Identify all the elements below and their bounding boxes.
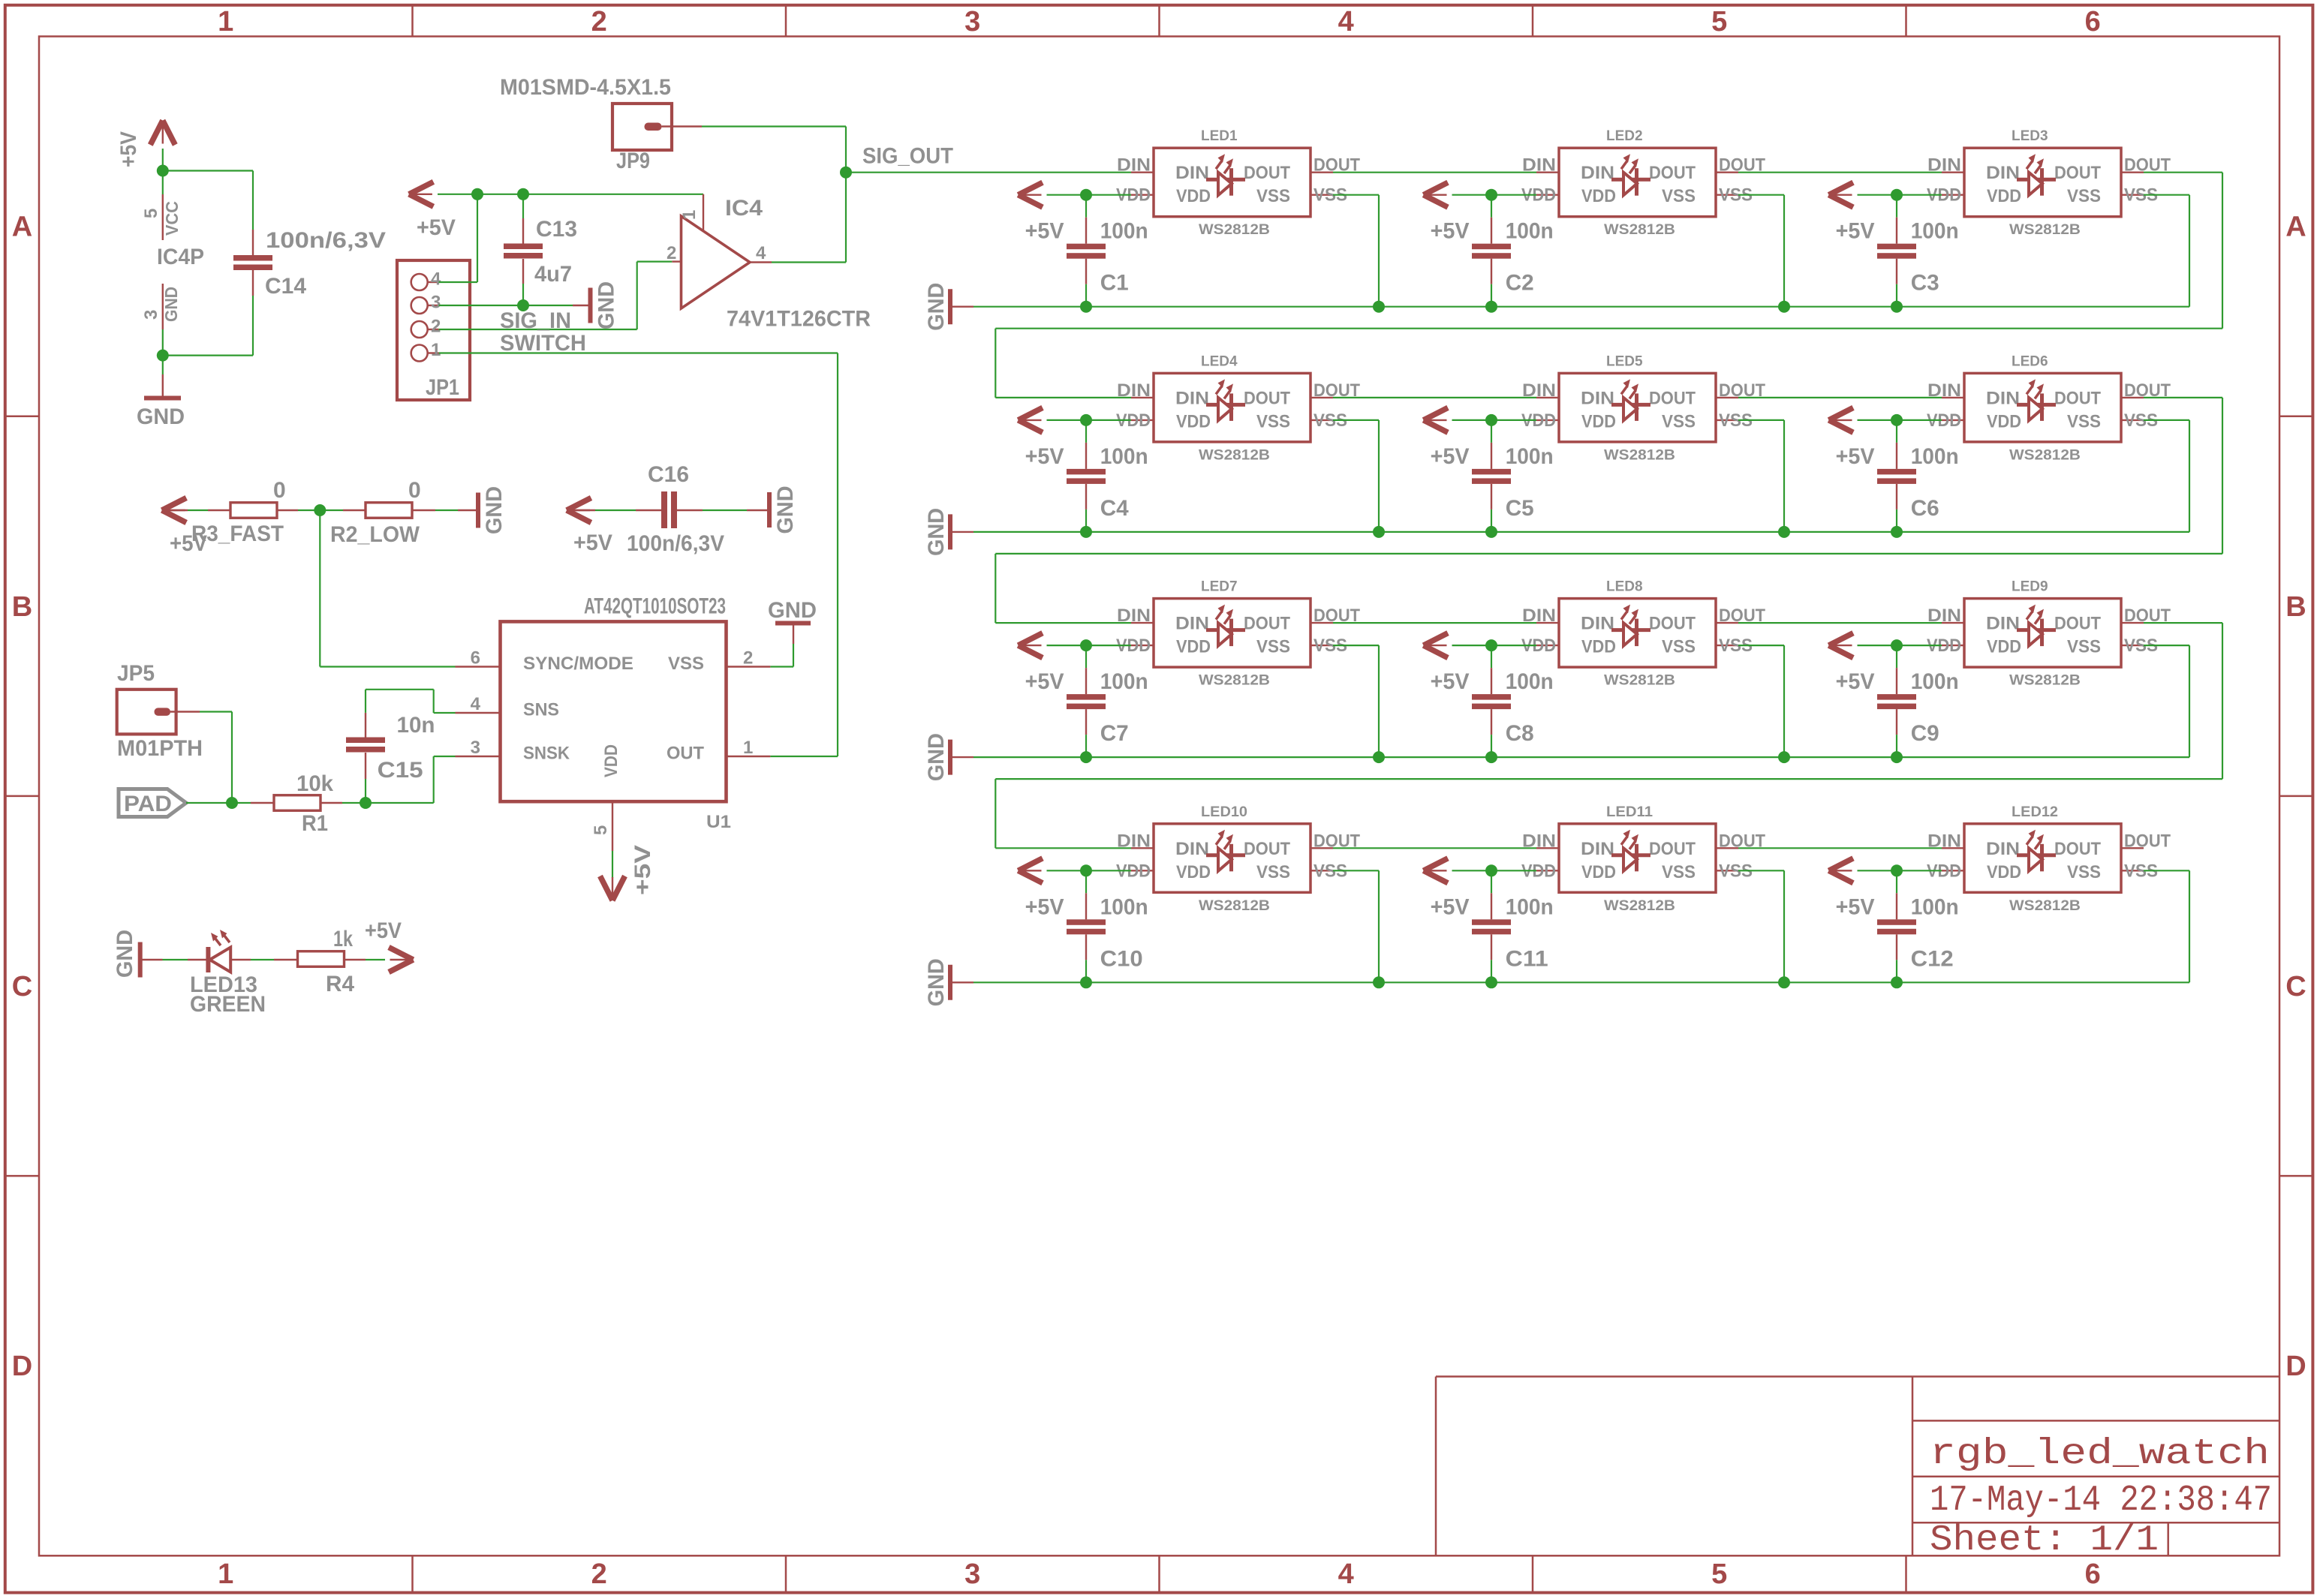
svg-text:3: 3 bbox=[471, 738, 480, 758]
svg-text:VSS: VSS bbox=[2067, 862, 2101, 882]
svg-text:SNSK: SNSK bbox=[523, 744, 570, 764]
svg-text:GND: GND bbox=[924, 733, 949, 781]
svg-text:WS2812B: WS2812B bbox=[1199, 447, 1270, 463]
svg-text:C4: C4 bbox=[1100, 496, 1129, 521]
svg-text:DIN: DIN bbox=[1522, 606, 1556, 626]
svg-text:DIN: DIN bbox=[1117, 155, 1151, 176]
svg-text:74V1T126CTR: 74V1T126CTR bbox=[727, 307, 871, 332]
svg-text:VDD: VDD bbox=[601, 744, 621, 777]
svg-text:DIN: DIN bbox=[1986, 839, 2020, 859]
svg-text:A: A bbox=[12, 212, 32, 243]
svg-text:DIN: DIN bbox=[1175, 839, 1209, 859]
svg-text:DIN: DIN bbox=[1581, 388, 1614, 408]
svg-text:+5V: +5V bbox=[417, 215, 456, 240]
svg-text:4: 4 bbox=[1338, 1558, 1354, 1590]
svg-text:1: 1 bbox=[679, 210, 700, 220]
svg-text:DIN: DIN bbox=[1522, 155, 1556, 176]
svg-text:+5V: +5V bbox=[170, 531, 207, 556]
svg-text:IC4P: IC4P bbox=[157, 245, 204, 269]
svg-text:JP1: JP1 bbox=[426, 375, 459, 400]
svg-text:4: 4 bbox=[756, 243, 766, 263]
svg-text:WS2812B: WS2812B bbox=[2009, 222, 2081, 238]
svg-text:4: 4 bbox=[431, 269, 441, 290]
svg-text:LED9: LED9 bbox=[2012, 579, 2048, 595]
svg-text:GND: GND bbox=[924, 958, 949, 1006]
svg-text:C8: C8 bbox=[1506, 721, 1534, 746]
svg-text:3: 3 bbox=[431, 293, 441, 313]
svg-text:VSS: VSS bbox=[668, 654, 704, 674]
svg-text:LED3: LED3 bbox=[2012, 128, 2048, 144]
svg-text:VDD: VDD bbox=[1581, 862, 1616, 882]
svg-text:C: C bbox=[12, 971, 32, 1002]
svg-text:2: 2 bbox=[667, 243, 676, 263]
svg-text:C13: C13 bbox=[536, 217, 577, 242]
svg-text:+5V: +5V bbox=[1836, 894, 1875, 919]
svg-text:VDD: VDD bbox=[1987, 186, 2021, 206]
svg-text:AT42QT1010SOT23: AT42QT1010SOT23 bbox=[584, 594, 726, 619]
svg-text:A: A bbox=[2285, 212, 2306, 243]
svg-text:2: 2 bbox=[591, 1558, 607, 1590]
svg-text:1: 1 bbox=[218, 1558, 233, 1590]
svg-text:DOUT: DOUT bbox=[2054, 163, 2101, 183]
svg-text:1: 1 bbox=[431, 340, 441, 360]
svg-text:DIN: DIN bbox=[1986, 388, 2020, 408]
svg-text:GND: GND bbox=[924, 283, 949, 331]
svg-text:DIN: DIN bbox=[1175, 163, 1209, 183]
svg-text:+5V: +5V bbox=[1836, 669, 1875, 694]
svg-text:DOUT: DOUT bbox=[2054, 614, 2101, 634]
svg-text:WS2812B: WS2812B bbox=[1604, 673, 1675, 689]
svg-text:R4: R4 bbox=[326, 972, 354, 996]
svg-text:100n: 100n bbox=[1100, 444, 1148, 469]
svg-text:DOUT: DOUT bbox=[1649, 163, 1696, 183]
svg-text:DOUT: DOUT bbox=[1649, 388, 1696, 408]
svg-text:1: 1 bbox=[743, 738, 753, 758]
svg-text:100n: 100n bbox=[1911, 669, 1959, 694]
svg-text:R1: R1 bbox=[302, 811, 328, 836]
svg-text:WS2812B: WS2812B bbox=[1199, 222, 1270, 238]
svg-text:100n: 100n bbox=[1911, 444, 1959, 469]
svg-text:DIN: DIN bbox=[1927, 831, 1961, 851]
svg-text:JP9: JP9 bbox=[616, 149, 650, 173]
svg-text:+5V: +5V bbox=[1836, 219, 1875, 244]
svg-text:+5V: +5V bbox=[1025, 894, 1064, 919]
svg-text:C11: C11 bbox=[1506, 946, 1548, 971]
svg-text:WS2812B: WS2812B bbox=[1604, 222, 1675, 238]
svg-text:VSS: VSS bbox=[1256, 411, 1290, 431]
svg-text:5: 5 bbox=[1711, 6, 1727, 38]
svg-text:B: B bbox=[2285, 591, 2306, 623]
svg-text:DIN: DIN bbox=[1986, 163, 2020, 183]
svg-text:4: 4 bbox=[471, 694, 481, 714]
svg-text:VSS: VSS bbox=[2067, 637, 2101, 657]
svg-text:GND: GND bbox=[594, 281, 619, 329]
svg-text:DOUT: DOUT bbox=[1244, 839, 1290, 859]
svg-text:WS2812B: WS2812B bbox=[1604, 898, 1675, 914]
svg-text:VDD: VDD bbox=[1176, 862, 1211, 882]
svg-text:C14: C14 bbox=[265, 274, 306, 299]
svg-text:VSS: VSS bbox=[1662, 411, 1696, 431]
svg-text:VSS: VSS bbox=[1662, 637, 1696, 657]
svg-text:C10: C10 bbox=[1100, 946, 1143, 971]
svg-text:SYNC/MODE: SYNC/MODE bbox=[523, 654, 633, 674]
svg-text:4u7: 4u7 bbox=[534, 262, 572, 287]
svg-text:GREEN: GREEN bbox=[190, 992, 266, 1017]
svg-text:LED2: LED2 bbox=[1606, 128, 1643, 144]
svg-text:VDD: VDD bbox=[1987, 637, 2021, 657]
svg-text:100n: 100n bbox=[1506, 669, 1554, 694]
svg-text:Sheet: 1/1: Sheet: 1/1 bbox=[1930, 1520, 2159, 1561]
svg-text:DIN: DIN bbox=[1986, 614, 2020, 634]
svg-text:R2_LOW: R2_LOW bbox=[330, 522, 420, 547]
svg-text:5: 5 bbox=[1711, 1558, 1727, 1590]
svg-text:VDD: VDD bbox=[1176, 411, 1211, 431]
svg-text:DOUT: DOUT bbox=[2054, 388, 2101, 408]
svg-text:C9: C9 bbox=[1911, 721, 1939, 746]
svg-text:OUT: OUT bbox=[667, 744, 704, 764]
svg-text:100n: 100n bbox=[1100, 669, 1148, 694]
svg-text:C5: C5 bbox=[1506, 496, 1534, 521]
svg-text:0: 0 bbox=[408, 478, 421, 503]
svg-text:D: D bbox=[2285, 1351, 2306, 1382]
svg-text:+5V: +5V bbox=[1025, 444, 1064, 469]
svg-text:DIN: DIN bbox=[1927, 155, 1961, 176]
svg-text:DIN: DIN bbox=[1927, 380, 1961, 401]
svg-text:100n: 100n bbox=[1506, 444, 1554, 469]
svg-text:DIN: DIN bbox=[1522, 831, 1556, 851]
svg-text:DIN: DIN bbox=[1927, 606, 1961, 626]
svg-text:rgb_led_watch: rgb_led_watch bbox=[1930, 1434, 2270, 1474]
svg-text:VSS: VSS bbox=[1662, 186, 1696, 206]
svg-text:C3: C3 bbox=[1911, 271, 1939, 296]
svg-text:+5V: +5V bbox=[1431, 669, 1470, 694]
svg-text:VDD: VDD bbox=[1176, 186, 1211, 206]
svg-text:SWITCH: SWITCH bbox=[500, 331, 586, 356]
svg-text:DIN: DIN bbox=[1522, 380, 1556, 401]
svg-text:C: C bbox=[2285, 971, 2306, 1002]
svg-text:3: 3 bbox=[964, 1558, 980, 1590]
svg-text:GND: GND bbox=[924, 508, 949, 556]
svg-text:PAD: PAD bbox=[124, 792, 172, 816]
svg-text:100n: 100n bbox=[1911, 219, 1959, 244]
svg-text:100n: 100n bbox=[1911, 894, 1959, 919]
svg-text:VDD: VDD bbox=[1176, 637, 1211, 657]
svg-text:C6: C6 bbox=[1911, 496, 1939, 521]
svg-text:VSS: VSS bbox=[1256, 637, 1290, 657]
svg-text:DOUT: DOUT bbox=[1649, 614, 1696, 634]
svg-text:VDD: VDD bbox=[1581, 637, 1616, 657]
svg-text:WS2812B: WS2812B bbox=[1199, 673, 1270, 689]
svg-text:1: 1 bbox=[218, 6, 233, 38]
svg-text:C7: C7 bbox=[1100, 721, 1129, 746]
svg-text:100n: 100n bbox=[1100, 219, 1148, 244]
svg-text:VDD: VDD bbox=[1581, 411, 1616, 431]
svg-text:100n/6,3V: 100n/6,3V bbox=[627, 531, 724, 556]
svg-text:VSS: VSS bbox=[1662, 862, 1696, 882]
svg-text:DOUT: DOUT bbox=[1244, 614, 1290, 634]
svg-text:C2: C2 bbox=[1506, 271, 1534, 296]
svg-text:LED12: LED12 bbox=[2012, 804, 2058, 820]
svg-text:C1: C1 bbox=[1100, 271, 1129, 296]
svg-text:LED10: LED10 bbox=[1201, 804, 1247, 820]
svg-text:VDD: VDD bbox=[1581, 186, 1616, 206]
svg-text:C15: C15 bbox=[378, 758, 423, 783]
svg-text:DOUT: DOUT bbox=[2124, 831, 2171, 851]
svg-text:WS2812B: WS2812B bbox=[2009, 447, 2081, 463]
svg-text:GND: GND bbox=[482, 486, 507, 534]
svg-text:B: B bbox=[12, 591, 32, 623]
svg-text:D: D bbox=[12, 1351, 32, 1382]
svg-text:100n: 100n bbox=[1506, 219, 1554, 244]
svg-text:GND: GND bbox=[773, 486, 798, 534]
svg-text:+5V: +5V bbox=[116, 131, 141, 167]
svg-text:VCC: VCC bbox=[162, 201, 182, 236]
svg-text:GND: GND bbox=[137, 404, 185, 429]
svg-text:M01PTH: M01PTH bbox=[117, 736, 203, 761]
svg-text:DIN: DIN bbox=[1581, 614, 1614, 634]
svg-text:LED1: LED1 bbox=[1201, 128, 1238, 144]
svg-text:2: 2 bbox=[743, 648, 753, 669]
svg-text:+5V: +5V bbox=[1431, 219, 1470, 244]
svg-text:+5V: +5V bbox=[1836, 444, 1875, 469]
svg-text:VSS: VSS bbox=[2067, 411, 2101, 431]
svg-text:+5V: +5V bbox=[365, 918, 402, 943]
svg-text:+5V: +5V bbox=[1025, 219, 1064, 244]
svg-text:1k: 1k bbox=[333, 927, 353, 951]
svg-text:+5V: +5V bbox=[630, 845, 655, 895]
svg-text:WS2812B: WS2812B bbox=[1604, 447, 1675, 463]
svg-text:+5V: +5V bbox=[1025, 669, 1064, 694]
svg-text:WS2812B: WS2812B bbox=[2009, 673, 2081, 689]
svg-text:VSS: VSS bbox=[1256, 862, 1290, 882]
svg-text:VSS: VSS bbox=[2067, 186, 2101, 206]
svg-text:DIN: DIN bbox=[1175, 614, 1209, 634]
svg-text:2: 2 bbox=[591, 6, 607, 38]
svg-text:+5V: +5V bbox=[573, 530, 612, 555]
svg-text:GND: GND bbox=[768, 598, 817, 623]
svg-text:DOUT: DOUT bbox=[1649, 839, 1696, 859]
svg-text:LED4: LED4 bbox=[1201, 353, 1238, 369]
svg-text:JP5: JP5 bbox=[117, 661, 155, 686]
svg-text:WS2812B: WS2812B bbox=[2009, 898, 2081, 914]
svg-text:SIG_IN: SIG_IN bbox=[500, 308, 571, 333]
svg-text:LED5: LED5 bbox=[1606, 353, 1643, 369]
svg-text:M01SMD-4.5X1.5: M01SMD-4.5X1.5 bbox=[500, 75, 671, 100]
svg-text:6: 6 bbox=[471, 648, 480, 669]
svg-text:100n: 100n bbox=[1506, 894, 1554, 919]
svg-text:SNS: SNS bbox=[523, 700, 559, 720]
svg-text:3: 3 bbox=[141, 310, 161, 320]
svg-text:3: 3 bbox=[964, 6, 980, 38]
svg-text:10k: 10k bbox=[296, 771, 333, 796]
svg-text:C12: C12 bbox=[1911, 946, 1954, 971]
svg-text:5: 5 bbox=[141, 209, 161, 218]
svg-text:SIG_OUT: SIG_OUT bbox=[862, 144, 953, 169]
svg-text:4: 4 bbox=[1338, 6, 1354, 38]
svg-text:17-May-14 22:38:47: 17-May-14 22:38:47 bbox=[1930, 1480, 2272, 1521]
svg-text:LED6: LED6 bbox=[2012, 353, 2048, 369]
svg-text:DIN: DIN bbox=[1175, 388, 1209, 408]
svg-text:2: 2 bbox=[431, 317, 441, 337]
svg-text:10n: 10n bbox=[397, 713, 435, 738]
svg-text:DOUT: DOUT bbox=[1244, 163, 1290, 183]
svg-text:LED7: LED7 bbox=[1201, 579, 1238, 595]
svg-text:+5V: +5V bbox=[1431, 444, 1470, 469]
svg-text:5: 5 bbox=[591, 825, 611, 835]
svg-text:U1: U1 bbox=[706, 812, 731, 832]
svg-text:WS2812B: WS2812B bbox=[1199, 898, 1270, 914]
svg-text:0: 0 bbox=[273, 478, 286, 503]
svg-text:VDD: VDD bbox=[1987, 862, 2021, 882]
svg-text:DIN: DIN bbox=[1581, 163, 1614, 183]
svg-text:LED11: LED11 bbox=[1606, 804, 1653, 820]
svg-text:6: 6 bbox=[2085, 1558, 2101, 1590]
svg-text:IC4: IC4 bbox=[725, 196, 763, 221]
svg-text:VDD: VDD bbox=[1987, 411, 2021, 431]
svg-text:+5V: +5V bbox=[1431, 894, 1470, 919]
svg-text:DOUT: DOUT bbox=[2054, 839, 2101, 859]
svg-text:LED8: LED8 bbox=[1606, 579, 1643, 595]
svg-text:6: 6 bbox=[2085, 6, 2101, 38]
svg-text:DIN: DIN bbox=[1581, 839, 1614, 859]
svg-text:DOUT: DOUT bbox=[1244, 388, 1290, 408]
svg-text:100n/6,3V: 100n/6,3V bbox=[266, 228, 386, 253]
svg-text:100n: 100n bbox=[1100, 894, 1148, 919]
svg-text:GND: GND bbox=[113, 930, 137, 978]
svg-text:VSS: VSS bbox=[1256, 186, 1290, 206]
svg-text:GND: GND bbox=[161, 287, 181, 322]
svg-text:C16: C16 bbox=[648, 462, 689, 487]
